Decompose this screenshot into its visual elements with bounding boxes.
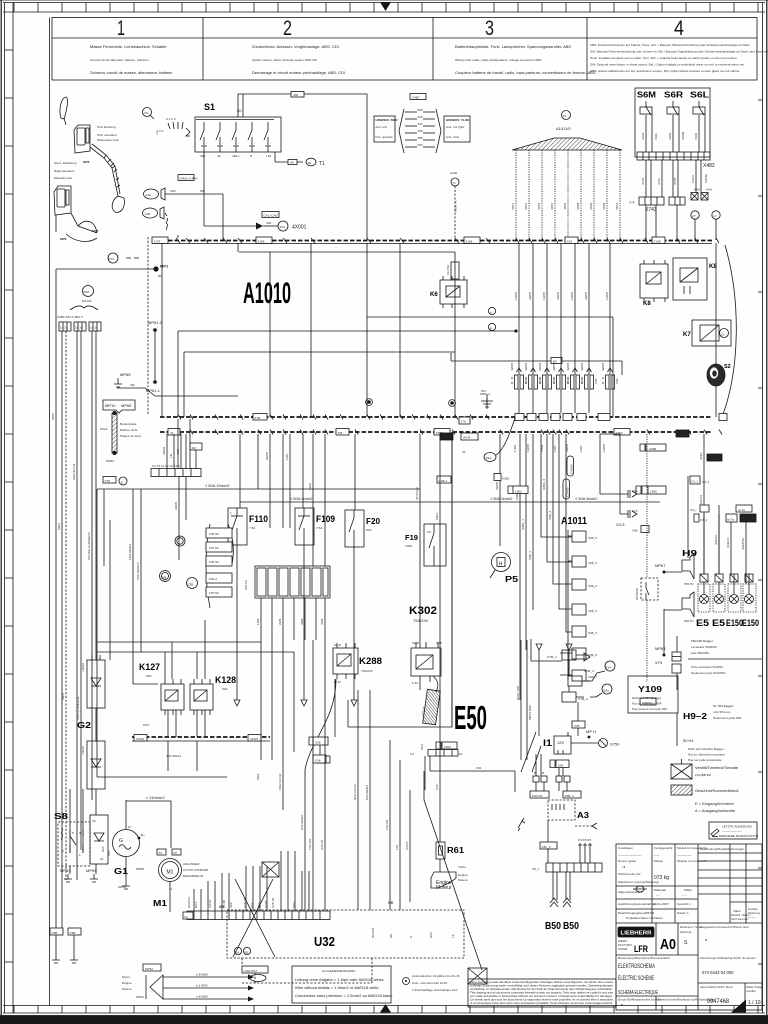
- chip XXXX dark: [740, 514, 756, 522]
- svg-text:DR1: DR1: [194, 902, 198, 908]
- rails under hatch block: [97, 641, 261, 643]
- svg-text:LFR: LFR: [634, 944, 648, 955]
- svg-text:Schéma: circuit de masse, alte: Schéma: circuit de masse, alternateur, b…: [90, 70, 173, 75]
- wire drop x400: [399, 243, 401, 417]
- svg-text:E1A: E1A: [606, 666, 613, 670]
- svg-text:3W2: 3W2: [256, 773, 260, 780]
- svg-text:4Z00: 4Z00: [550, 203, 554, 210]
- rail 331: [178, 330, 516, 332]
- svg-text:X98A_3: X98A_3: [542, 479, 546, 490]
- svg-text:222.F0: 222.F0: [244, 580, 248, 590]
- svg-text:15A: 15A: [615, 378, 619, 384]
- excavator sketch upper bucket: [112, 196, 124, 212]
- svg-text:HINWEIS: BRO: HINWEIS: BRO: [376, 118, 399, 122]
- svg-text:Modèle ou numéro N°: Modèle ou numéro N°: [677, 859, 708, 863]
- svg-text:a B W05: a B W05: [196, 995, 208, 999]
- svg-text:SW: Optional travel alarm or s: SW: Optional travel alarm or shear sound…: [590, 63, 744, 67]
- B50 wires: [553, 872, 570, 900]
- svg-text:A100 Tx: A100 Tx: [454, 200, 458, 212]
- svg-text:Motor: Motor: [122, 975, 130, 979]
- signature mark: [60, 97, 68, 119]
- svg-text:074 0443 04 000: 074 0443 04 000: [702, 970, 734, 975]
- svg-text:5904/95 Bagger: 5904/95 Bagger: [691, 639, 713, 643]
- svg-text:388: 388: [418, 136, 423, 140]
- svg-text:7.5A: 7.5A: [249, 526, 256, 530]
- svg-text:1a 1a: 1a 1a: [90, 326, 98, 330]
- svg-text:1W2 AWG4: 1W2 AWG4: [128, 544, 132, 560]
- alternator G1: [113, 830, 140, 857]
- connector X743: [639, 197, 664, 205]
- svg-text:X4B7: X4B7: [412, 96, 420, 100]
- svg-text:Tx: Tx: [453, 181, 457, 185]
- svg-text:4Y05: 4Y05: [673, 177, 677, 185]
- connector box c: [89, 322, 101, 331]
- svg-text:4W05: 4W05: [580, 363, 584, 371]
- svg-text:585: 585: [418, 108, 423, 112]
- svg-text:Moteur: Moteur: [436, 885, 452, 891]
- svg-text:Maße: Maße: [684, 888, 692, 892]
- scan edge right: [766, 0, 768, 1015]
- svg-text:X8B–1: X8B–1: [565, 794, 575, 798]
- wires S8 up: [70, 789, 83, 853]
- svg-text:X28: X28: [315, 741, 321, 745]
- S1 switch contact 5: [264, 122, 268, 145]
- svg-text:B: B: [542, 771, 544, 775]
- svg-text:5903: 5903: [61, 693, 65, 700]
- svg-text:4.0 KW STARTER: 4.0 KW STARTER: [183, 868, 209, 872]
- svg-text:X04: X04: [567, 240, 573, 244]
- top ruler ticks: [14, 3, 758, 13]
- svg-text:GND PK2: GND PK2: [244, 969, 258, 973]
- wire drop x367: [366, 243, 368, 417]
- title block outer: [616, 844, 762, 1010]
- lamp P5: [492, 553, 511, 572]
- node B circle: [488, 323, 495, 330]
- svg-text:√ 50A 5mm2: √ 50A 5mm2: [290, 496, 313, 501]
- svg-text:Schéma: Schéma: [680, 930, 692, 934]
- svg-text:9: 9: [409, 936, 413, 938]
- svg-text:1W05: 1W05: [542, 292, 546, 300]
- chip WYR: [461, 433, 478, 440]
- K288 wire down: [305, 679, 336, 770]
- scan edge left: [1, 0, 3, 1024]
- svg-text:Plaque de fond: Plaque de fond: [120, 434, 141, 438]
- svg-text:D8: D8: [389, 934, 393, 938]
- svg-text:F110: F110: [249, 514, 268, 524]
- svg-text:ABS: Zusatzscheinwerfer auf Ka: ABS: Zusatzscheinwerfer auf Kabine, Hupe…: [590, 43, 750, 47]
- pins right of A3: [580, 843, 590, 863]
- hatched connector block: [255, 566, 330, 598]
- P2 circle: [143, 108, 152, 117]
- letzte aenderung box: [709, 822, 757, 839]
- svg-text:B6: B6: [158, 274, 162, 278]
- rail 361: [451, 360, 622, 362]
- revision checkmark: [518, 818, 525, 831]
- svg-text:Engine: Engine: [458, 873, 468, 877]
- svg-text:X3-3: X3-3: [616, 522, 625, 527]
- triangle marks: [234, 700, 357, 706]
- A1011 connector stack: [541, 434, 597, 681]
- svg-text:K15: K15: [435, 784, 439, 790]
- lamp P5 wire: [499, 434, 501, 546]
- lamp group E150 b: [742, 574, 759, 628]
- svg-text:4W05: 4W05: [556, 292, 560, 300]
- svg-text:GRAU GRAY: GRAU GRAY: [180, 177, 198, 181]
- svg-text:FS1 B4: FS1 B4: [385, 819, 389, 830]
- svg-text:Zeichnungs Nr/Drawing No/N° du: Zeichnungs Nr/Drawing No/N° du dessin: [700, 956, 756, 960]
- svg-text:B5: B5: [553, 360, 557, 364]
- svg-text:S750: S750: [610, 742, 620, 747]
- svg-text:VF: VF: [427, 530, 431, 534]
- A1010 left edge: [161, 243, 163, 417]
- svg-text:~ ~: ~ ~: [682, 893, 687, 897]
- legend shield symbol: [671, 785, 692, 795]
- svg-text:M8: M8: [338, 431, 343, 435]
- svg-text:A100: A100: [450, 171, 458, 175]
- svg-text:Benennung/Description/Dénomina: Benennung/Description/Dénomination: [618, 956, 670, 960]
- svg-text:4W05: 4W05: [524, 363, 528, 371]
- svg-text:~~~~: ~~~~: [748, 915, 755, 919]
- svg-text:X98_4: X98_4: [588, 609, 597, 613]
- svg-text:X98A_1: X98A_1: [521, 519, 525, 530]
- A0 cell: [655, 923, 657, 955]
- wire S2 down: [715, 386, 717, 417]
- S6 wires down: [646, 114, 705, 152]
- fuse row above bus: [510, 243, 619, 413]
- A3 section wires down: [536, 754, 563, 776]
- svg-text:2: 2: [283, 17, 292, 40]
- chip WM dark: [707, 454, 722, 461]
- svg-text:7.5A: 7.5A: [316, 526, 323, 530]
- svg-text:A1011: A1011: [561, 516, 587, 527]
- svg-text:A1010: A1010: [243, 277, 291, 310]
- svg-text:5903: 5903: [435, 513, 439, 520]
- svg-text:S6M: S6M: [637, 91, 656, 100]
- svg-text:MP59: MP59: [86, 868, 97, 873]
- svg-text:2M: 2M: [192, 446, 197, 450]
- svg-text:X1 15 11 12 13 14 5: X1 15 11 12 13 14 5: [152, 464, 180, 468]
- chip GRAU/GRAY: [178, 175, 198, 181]
- junction box 2: [701, 193, 708, 201]
- K bus: [132, 736, 270, 738]
- fuse element x547: [546, 243, 548, 375]
- svg-text:F3b-2: F3b-2: [209, 577, 217, 581]
- ellipse joint: [250, 975, 266, 982]
- svg-text:G2: G2: [77, 721, 92, 730]
- svg-text:29-01-2007: 29-01-2007: [653, 902, 669, 906]
- left ruler band: [4, 3, 6, 1014]
- svg-text:S5A: S5A: [84, 290, 91, 294]
- svg-text:K15 AWG0: K15 AWG0: [300, 815, 304, 830]
- wire to 50Hz: [676, 713, 678, 746]
- chip X8L_2: [540, 842, 557, 849]
- ecu A3: [548, 800, 575, 820]
- chip X30 right: [614, 429, 630, 436]
- svg-text:3W5: 3W5: [300, 618, 304, 625]
- S1 internal bold bar: [196, 119, 274, 121]
- connector bar X8_J: [546, 863, 602, 872]
- svg-text:F3c 5A: F3c 5A: [209, 546, 220, 550]
- svg-text:1W05: 1W05: [570, 292, 574, 300]
- svg-text:F19: F19: [405, 535, 418, 542]
- svg-text:K302: K302: [409, 605, 437, 617]
- wires to bus from S6: [646, 205, 716, 240]
- triangles mid: [536, 644, 572, 650]
- title block grid: [651, 844, 653, 923]
- svg-text:2Y: 2Y: [692, 214, 696, 218]
- top triangle marker: [380, 2, 391, 11]
- svg-text:SCHEMA ELECTRIQUE: SCHEMA ELECTRIQUE: [618, 990, 658, 996]
- svg-text:Ersetzt durch/Replaced by/Remp: Ersetzt durch/Replaced by/Remplacé par: [658, 998, 714, 1002]
- svg-text:√ 50A 15mm2: √ 50A 15mm2: [205, 483, 230, 488]
- battery G2 lower: [87, 741, 105, 789]
- node Z1: [720, 329, 729, 338]
- svg-text:Rigid elevation: Rigid elevation: [54, 169, 75, 173]
- svg-text:~ ~: ~ ~: [656, 893, 661, 897]
- junction dot b: [450, 401, 454, 405]
- svg-text:H9–2: H9–2: [683, 712, 708, 721]
- svg-text:1N: 1N: [169, 454, 173, 458]
- svg-text:P2: P2: [145, 111, 149, 115]
- svg-text:G1: G1: [114, 867, 129, 876]
- G2 link wires: [95, 708, 97, 815]
- svg-text:Schutzrecht und: Schutzrecht und: [618, 872, 641, 876]
- wire A100 dash: [454, 186, 456, 240]
- node label circle: [562, 111, 571, 120]
- svg-text:5W05: 5W05: [265, 452, 269, 460]
- U32 pin strip: [187, 911, 330, 920]
- svg-text:Maschinen-nummer/Messergr: Maschinen-nummer/Messergr: [618, 880, 659, 884]
- svg-text:4AE3 5: 4AE3 5: [699, 495, 703, 505]
- svg-text:1W0: 1W0: [579, 445, 583, 452]
- X7M connector stack: [562, 650, 576, 660]
- bottom triangle marker: [380, 1004, 391, 1013]
- svg-text:M1: M1: [153, 899, 168, 908]
- chip GND PK2: [242, 966, 268, 973]
- svg-text:X8L_2: X8L_2: [542, 845, 551, 849]
- chip 1X073A: [530, 791, 549, 798]
- svg-text:4Z08: 4Z08: [563, 203, 567, 210]
- svg-text:50A AWG4: 50A AWG4: [365, 785, 369, 800]
- svg-text:Ans. not right: Ans. not right: [446, 125, 464, 129]
- svg-text:31: 31: [170, 431, 174, 435]
- top ruler band: [3, 2, 765, 4]
- svg-text:X98_5: X98_5: [588, 536, 597, 540]
- svg-text:K127: K127: [139, 662, 160, 672]
- svg-text:F13 5A: F13 5A: [446, 264, 450, 275]
- wire drop x311: [310, 243, 312, 417]
- svg-text:4AE9 3: 4AE9 3: [726, 538, 730, 548]
- svg-text:S2B: S2B: [188, 583, 194, 587]
- A3 dashed arrow: [575, 825, 593, 827]
- chip 1A: [183, 912, 193, 919]
- rail 352: [184, 351, 455, 353]
- svg-text:12V: 12V: [557, 740, 564, 745]
- connector strip X1: [151, 469, 201, 477]
- F110 drops: [237, 545, 354, 600]
- excavator sketch lower cab: [54, 186, 71, 215]
- drawing area left border: [49, 18, 51, 1006]
- svg-text:X98_3: X98_3: [588, 561, 597, 565]
- svg-text:31: 31: [100, 857, 104, 861]
- chip 2188: [464, 237, 480, 244]
- svg-text:L54: L54: [266, 154, 271, 158]
- left drops to strip: [167, 419, 452, 842]
- horn S2: [707, 364, 725, 386]
- chip 31B: [253, 414, 267, 421]
- chip 1747: [152, 237, 168, 244]
- header table frame: [52, 18, 757, 81]
- svg-text:K288: K288: [359, 656, 382, 666]
- svg-text:F30 5A: F30 5A: [209, 591, 220, 595]
- svg-text:152: 152: [476, 766, 481, 770]
- svg-text:X7M_3: X7M_3: [584, 669, 594, 673]
- svg-text:500 Hz: 500 Hz: [684, 619, 694, 623]
- wire MP1: [56, 268, 156, 270]
- fuse element x519: [518, 243, 520, 375]
- hint box right: [444, 116, 470, 142]
- svg-text:B50: B50: [563, 921, 579, 932]
- svg-text:F3b 5A: F3b 5A: [209, 560, 220, 564]
- svg-text:3W05: 3W05: [174, 502, 178, 510]
- svg-text:4X03: 4X03: [641, 132, 645, 140]
- svg-text:41B: 41B: [145, 212, 151, 216]
- svg-text:Hub-Drehung: Hub-Drehung: [97, 125, 116, 129]
- big box left edge: [96, 489, 98, 777]
- svg-text:17A: 17A: [461, 420, 467, 424]
- svg-text:4X0L: 4X0L: [654, 132, 658, 140]
- node E1A: [605, 661, 615, 671]
- svg-text:Tell Nummer: Tell Nummer: [731, 917, 748, 921]
- svg-text:ni communiqués à des tiers san: ni communiqués à des tiers sans notre au…: [470, 1001, 613, 1005]
- wire I1 to S750: [571, 742, 598, 744]
- svg-text:5903: 5903: [57, 523, 61, 530]
- node 2V9: [278, 221, 288, 231]
- battery main: [90, 815, 108, 864]
- chip 1988: [646, 444, 666, 451]
- wire 30 drop: [242, 94, 244, 117]
- svg-text:6 42: 6 42: [412, 681, 418, 685]
- svg-text:Wire without details = 1.5mm2: Wire without details = 1.5mm2 or AWG18 w…: [295, 985, 379, 990]
- svg-text:3: 3: [485, 17, 494, 40]
- svg-text:Moteur: Moteur: [122, 987, 132, 991]
- svg-text:X7M_2: X7M_2: [578, 697, 588, 701]
- svg-text:Feuille: Feuille: [747, 989, 756, 993]
- svg-text:WYR: WYR: [463, 436, 471, 440]
- chip G4B: [437, 476, 451, 483]
- svg-text:4AE9 b: 4AE9 b: [714, 535, 718, 545]
- svg-text:F109: F109: [316, 514, 335, 524]
- svg-text:X7M_1: X7M_1: [547, 655, 557, 659]
- svg-text:4X0M: 4X0M: [681, 131, 685, 140]
- svg-text:Hub. elevation: Hub. elevation: [97, 133, 117, 137]
- svg-text:MP61.2: MP61.2: [148, 320, 163, 325]
- svg-text:LETZTE ÄNDERUNG: LETZTE ÄNDERUNG: [722, 825, 753, 829]
- svg-text:400: 400: [293, 93, 298, 97]
- svg-text:555 Hz: 555 Hz: [684, 582, 694, 586]
- svg-text:3K2: 3K2: [229, 902, 233, 908]
- svg-text:4Y0L: 4Y0L: [657, 177, 661, 185]
- connector X423: [669, 197, 685, 205]
- svg-text:D02: D02: [429, 932, 433, 938]
- svg-text:pele 5904/95: pele 5904/95: [691, 651, 709, 655]
- svg-text:4X001: 4X001: [292, 225, 307, 231]
- right margin cable curve: [722, 245, 736, 417]
- chip X28: [313, 737, 328, 745]
- svg-text:X3 B1: X3 B1: [208, 899, 212, 908]
- motor phase wires: [163, 977, 248, 999]
- long diagonal: [424, 800, 482, 970]
- svg-text:OPTION: OPTION: [635, 588, 639, 600]
- svg-text:=Ⅱ: =Ⅱ: [622, 865, 626, 869]
- svg-text:SPLICE FLANGE34: SPLICE FLANGE34: [87, 532, 91, 560]
- svg-text:E150: E150: [726, 618, 743, 628]
- hatch block pins: [261, 598, 325, 640]
- svg-text:Ausführung/Gew.aufnahme: Ausführung/Gew.aufnahme: [618, 902, 656, 906]
- chip XM: [190, 443, 202, 450]
- svg-text:4W05: 4W05: [584, 292, 588, 300]
- fuse column labels: [514, 292, 609, 300]
- svg-text:30: 30: [159, 851, 163, 855]
- connector box b: [74, 322, 86, 331]
- svg-text:MP H: MP H: [586, 729, 596, 734]
- svg-text:X98_3: X98_3: [548, 511, 552, 520]
- svg-text:KL5: KL5: [632, 489, 638, 493]
- arrow flag: [584, 653, 590, 661]
- svg-text:49a L: 49a L: [232, 154, 240, 158]
- node S2B: [187, 578, 198, 589]
- svg-text:~~~~~~~~~~~: ~~~~~~~~~~~: [722, 829, 742, 833]
- U32 dashed box: [227, 910, 464, 958]
- svg-text:2Y88: 2Y88: [654, 240, 662, 244]
- chip X302: [434, 429, 450, 436]
- svg-text:1: 1: [230, 511, 232, 515]
- chip X4B7: [410, 94, 426, 100]
- svg-text:3X2 AWG4: 3X2 AWG4: [166, 754, 181, 758]
- bottom right triangle marker: [731, 1000, 746, 1013]
- svg-text:1a 2a: 1a 2a: [60, 326, 68, 330]
- svg-text:Vorgesehen für/used for/Prévu: Vorgesehen für/used for/Prévu pour: [700, 925, 749, 929]
- E50 box corner: [348, 432, 452, 727]
- svg-text:I1: I1: [543, 738, 552, 748]
- svg-text:ta 7a: ta 7a: [738, 508, 745, 512]
- svg-text:Nenne gewie: Nenne gewie: [618, 859, 636, 863]
- S1 switch box: [195, 117, 281, 152]
- twist symbol 2: [468, 968, 487, 984]
- svg-text:AA0M: AA0M: [704, 174, 708, 183]
- svg-text:Z1: Z1: [721, 333, 725, 337]
- node E circle: [119, 477, 127, 485]
- svg-text:K128: K128: [215, 675, 236, 685]
- svg-text:Y109: Y109: [638, 684, 662, 694]
- battery G2 upper: [87, 660, 105, 708]
- wire drop x270: [269, 252, 271, 417]
- svg-text:2bw2: 2bw2: [100, 427, 108, 431]
- roof drop wires: [516, 150, 620, 240]
- bus 30 connector ticks: [176, 235, 719, 243]
- svg-text:X9B: X9B: [70, 931, 76, 935]
- svg-text:31W2: 31W2: [250, 737, 258, 741]
- bus 30 main: [155, 240, 712, 242]
- svg-text:X988: X988: [649, 447, 657, 451]
- chip 1903b: [508, 486, 528, 494]
- G1 top wire: [126, 801, 171, 848]
- node S2A: [484, 453, 496, 462]
- svg-text:√ 50A 5mm2: √ 50A 5mm2: [575, 496, 598, 501]
- svg-text:Moteur: Moteur: [458, 878, 468, 882]
- svg-text:9947468: 9947468: [707, 998, 729, 1005]
- chip CALICAO: [262, 212, 279, 218]
